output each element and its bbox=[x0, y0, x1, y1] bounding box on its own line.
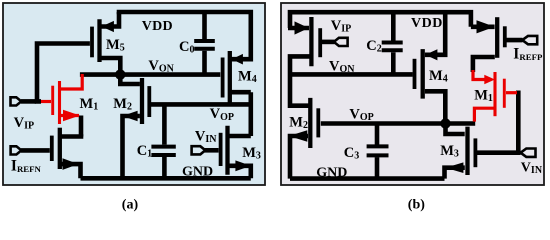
svg-text:(a): (a) bbox=[122, 198, 139, 213]
svg-text:VDD: VDD bbox=[411, 16, 443, 31]
svg-text:VDD: VDD bbox=[142, 19, 173, 34]
svg-text:(b): (b) bbox=[408, 198, 425, 213]
svg-text:GND: GND bbox=[316, 165, 347, 180]
svg-text:GND: GND bbox=[182, 165, 213, 180]
